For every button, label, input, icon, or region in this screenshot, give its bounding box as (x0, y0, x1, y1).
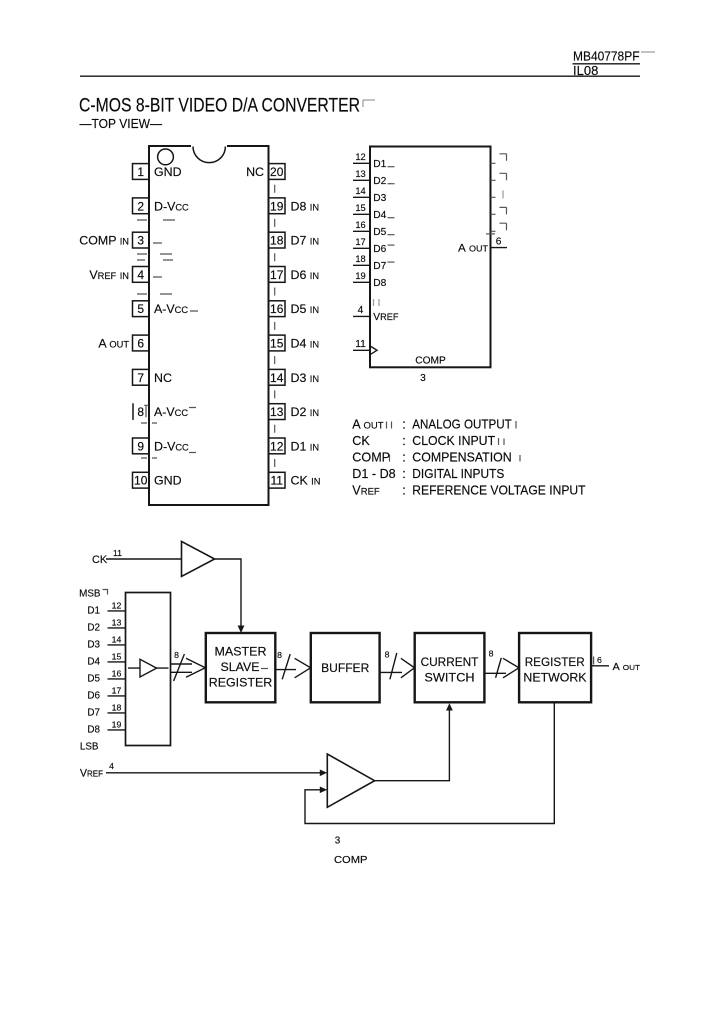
svg-text:COMP: COMP (334, 855, 368, 866)
svg-text:LSB: LSB (80, 741, 99, 752)
svg-text:D7: D7 (373, 261, 386, 272)
svg-text:14: 14 (270, 371, 284, 385)
pin 11 clock wire (353, 339, 370, 350)
svg-text:14: 14 (355, 186, 365, 196)
svg-text:D8 IN: D8 IN (291, 199, 320, 213)
svg-text:8: 8 (489, 649, 494, 659)
pin 18 net D7 IN (291, 234, 320, 248)
pin 16 label D5 (373, 227, 394, 238)
svg-text:6: 6 (496, 236, 502, 247)
svg-text:D3 IN: D3 IN (291, 371, 320, 385)
svg-text:C-MOS 8-BIT VIDEO D/A CONVERTE: C-MOS 8-BIT VIDEO D/A CONVERTER (79, 95, 360, 117)
buffer box (311, 633, 380, 702)
svg-text:15: 15 (112, 651, 122, 661)
wire D2 input pin 13 (87, 617, 125, 633)
svg-text:D2: D2 (87, 623, 100, 634)
svg-text:6: 6 (597, 655, 602, 665)
svg-text:1: 1 (137, 165, 144, 179)
pin 13 label D2 (373, 176, 394, 187)
svg-text:2: 2 (137, 199, 144, 213)
svg-text:A OUT: A OUT (98, 337, 129, 351)
pin 12 label D1 (373, 159, 394, 170)
svg-text::: : (402, 467, 406, 481)
pin 17 wire D6 (353, 237, 370, 248)
svg-text:D6 IN: D6 IN (291, 268, 320, 282)
svg-text:SLAVE: SLAVE (221, 660, 260, 674)
svg-text:D4: D4 (87, 657, 100, 668)
pin 17 net D6 IN (291, 268, 320, 282)
svg-text:SWITCH: SWITCH (424, 671, 474, 685)
svg-text:BUFFER: BUFFER (321, 661, 370, 675)
master slave register box (206, 633, 275, 702)
svg-text:REGISTER: REGISTER (209, 676, 273, 690)
pin 16 wire D5 (353, 220, 370, 231)
pin 6 net AOUT (98, 337, 129, 351)
bus current switch to register network, width 8 (484, 649, 519, 678)
legend row CLOCK INPUT (499, 438, 505, 445)
pin 1 box (133, 164, 150, 180)
svg-text:19: 19 (355, 271, 365, 281)
wire D6 input pin 17 (87, 685, 125, 701)
part number MB40778PF (573, 49, 640, 64)
pin 10 box (133, 472, 150, 488)
clock input triangle (370, 346, 377, 355)
subtitle TOP VIEW (80, 116, 163, 131)
pin 17 box (269, 267, 286, 283)
svg-text:7: 7 (137, 371, 144, 385)
wire clock buffer to master slave register (215, 559, 245, 633)
svg-text::: : (402, 451, 406, 465)
svg-text:DIGITAL INPUTS: DIGITAL INPUTS (412, 467, 504, 481)
input latch buffer symbol (128, 659, 169, 677)
current switch box (415, 633, 485, 702)
svg-text:D4: D4 (373, 210, 386, 221)
scan artifacts pin labels (189, 311, 198, 453)
rule under part number (573, 63, 641, 65)
svg-text:8: 8 (174, 650, 179, 660)
document code IL08 (573, 63, 598, 78)
svg-text:17: 17 (270, 268, 284, 282)
svg-text:D8: D8 (373, 278, 386, 289)
svg-text:D3: D3 (373, 193, 386, 204)
pin 18 label D7 (373, 261, 394, 272)
pin 13 net D2 IN (291, 405, 320, 419)
svg-text::: : (402, 434, 406, 448)
scan artifact stubs on right edge (491, 163, 496, 231)
svg-text:CURRENT: CURRENT (421, 655, 479, 669)
pin 15 wire D4 (353, 203, 370, 214)
wire D7 input pin 18 (87, 702, 125, 718)
svg-text:D3: D3 (87, 640, 100, 651)
register network box (519, 633, 591, 702)
pin 4 label VREF (373, 312, 399, 323)
svg-text:3: 3 (335, 835, 341, 846)
svg-text:D6: D6 (87, 691, 100, 702)
svg-text:NETWORK: NETWORK (523, 671, 586, 685)
svg-text:8: 8 (137, 405, 144, 419)
pin 17 label D6 (373, 244, 394, 255)
pin 14 wire D3 (353, 186, 370, 197)
pin 4 wire VREF (353, 305, 370, 316)
pin 13 box (269, 404, 286, 420)
pin 15 net D4 IN (291, 337, 320, 351)
wire CK to clock buffer (106, 558, 182, 560)
svg-text:3: 3 (137, 234, 144, 248)
svg-text:16: 16 (270, 302, 284, 316)
A OUT label (613, 662, 641, 673)
pin 8 box (133, 403, 148, 420)
svg-text:D-VCC: D-VCC (154, 439, 189, 453)
wire op-amp output to current switch (375, 703, 453, 781)
svg-text:3: 3 (420, 373, 426, 384)
svg-text:COMPENSATION: COMPENSATION (412, 451, 511, 465)
svg-text:NC: NC (246, 165, 264, 179)
svg-text:D5: D5 (87, 674, 100, 685)
svg-text:D-VCC: D-VCC (154, 199, 189, 213)
svg-text:4: 4 (137, 268, 144, 282)
svg-text:20: 20 (270, 165, 284, 179)
pin 14 net D3 IN (291, 371, 320, 385)
header rule (80, 75, 640, 77)
feedback wire register network to op-amp inverting input (305, 702, 554, 823)
legend row REFERENCE VOLTAGE INPUT (352, 484, 586, 498)
header artifact (641, 51, 655, 53)
svg-text:13: 13 (270, 405, 284, 419)
svg-text:16: 16 (355, 220, 365, 230)
functional block U1 outline (370, 147, 491, 368)
svg-text:8: 8 (385, 650, 390, 660)
svg-text:MSB: MSB (79, 588, 101, 599)
wire VREF to op-amp (106, 770, 327, 777)
pin 1 label GND (154, 165, 182, 179)
pin 5 box (133, 301, 150, 317)
svg-text:D2 IN: D2 IN (291, 405, 320, 419)
svg-text:D5 IN: D5 IN (291, 302, 320, 316)
svg-text:VREF: VREF (373, 312, 399, 323)
svg-text:—TOP VIEW—: —TOP VIEW— (80, 116, 163, 131)
svg-text:CLOCK INPUT: CLOCK INPUT (412, 434, 495, 448)
svg-text:11: 11 (355, 339, 366, 350)
svg-text:GND: GND (154, 474, 182, 488)
svg-text:8: 8 (277, 650, 282, 660)
pin 3 box (133, 232, 150, 248)
scan artifact inside box (374, 299, 380, 306)
pin 14 box (269, 369, 286, 385)
svg-text:12: 12 (355, 152, 365, 162)
pin 9 box (133, 438, 150, 454)
svg-text:D1 - D8: D1 - D8 (352, 467, 395, 481)
pin 20 box (269, 164, 286, 180)
svg-text:VREF IN: VREF IN (89, 268, 129, 282)
pin 10 label GND (154, 474, 182, 488)
svg-text:COMP IN: COMP IN (79, 234, 129, 248)
svg-text:D7 IN: D7 IN (291, 234, 320, 248)
svg-text:11: 11 (113, 548, 122, 558)
svg-text:A OUT: A OUT (458, 242, 488, 254)
svg-text:15: 15 (270, 337, 284, 351)
wire D1 input pin 12 (87, 600, 125, 616)
svg-text:VREF: VREF (80, 768, 103, 780)
pin 16 box (269, 301, 286, 317)
pin 7 label NC (154, 371, 172, 385)
svg-text:VREF: VREF (352, 484, 380, 498)
wire register network to A OUT pin 6 (591, 655, 609, 666)
svg-text:CK: CK (352, 434, 370, 448)
svg-text:13: 13 (355, 169, 365, 179)
block diagram: CK net label (92, 548, 122, 566)
pin 12 wire D1 (353, 152, 370, 163)
pin 5 label AVCC (154, 302, 188, 316)
svg-text:D4 IN: D4 IN (291, 337, 320, 351)
svg-text:CK: CK (92, 554, 108, 566)
pin 14 label D3 (373, 193, 386, 204)
pin 6 label A OUT (458, 242, 488, 254)
svg-text:14: 14 (112, 634, 122, 644)
svg-text:16: 16 (112, 668, 122, 678)
svg-text:A OUT: A OUT (613, 662, 641, 673)
svg-text:D2: D2 (373, 176, 386, 187)
pin 20 label NC (246, 165, 264, 179)
svg-text:D1 IN: D1 IN (291, 439, 320, 453)
pin 19 net D8 IN (291, 199, 320, 213)
svg-text:19: 19 (270, 199, 284, 213)
svg-text:REFERENCE VOLTAGE INPUT: REFERENCE VOLTAGE INPUT (412, 484, 586, 498)
scan artifacts left column dashes (137, 220, 175, 458)
legend row ANALOG OUTPUT (387, 421, 517, 429)
title C-MOS 8-BIT VIDEO D/A CONVERTER (79, 95, 360, 117)
svg-text:D1: D1 (373, 159, 386, 170)
svg-text:MASTER: MASTER (215, 645, 267, 659)
pin 19 label D8 (373, 278, 386, 289)
svg-text:A-VCC: A-VCC (154, 302, 188, 316)
svg-text:D6: D6 (373, 244, 386, 255)
input latch box (126, 593, 171, 746)
IC package U1 body (149, 145, 269, 506)
svg-text:A-VCC: A-VCC (154, 405, 188, 419)
pin 8 label AVCC (154, 405, 188, 419)
COMP label (415, 355, 446, 366)
LSB label (80, 741, 99, 752)
svg-text:GND: GND (154, 165, 182, 179)
svg-text:15: 15 (355, 203, 365, 213)
pin 19 box (269, 198, 286, 214)
svg-text:COMP: COMP (352, 451, 390, 465)
legend row DIGITAL INPUTS (352, 467, 504, 481)
pin 12 net D1 IN (291, 439, 320, 453)
pin 11 net CK IN (291, 474, 321, 488)
pin 6 box (133, 335, 150, 351)
pin 19 wire D8 (353, 271, 370, 282)
compensation op-amp (327, 754, 374, 807)
svg-text:5: 5 (137, 302, 144, 316)
pin 2 box (133, 198, 150, 214)
svg-text:REGISTER: REGISTER (525, 655, 585, 669)
pin 12 box (269, 438, 286, 454)
clock buffer amplifier (182, 541, 215, 576)
svg-text:A OUT: A OUT (352, 418, 383, 432)
svg-text:17: 17 (112, 685, 122, 695)
pin 6 wire A OUT (491, 236, 508, 247)
pin 18 wire D7 (353, 254, 370, 265)
svg-text:D1: D1 (87, 606, 100, 617)
pin 2 label DVCC (154, 199, 189, 213)
svg-text:CK IN: CK IN (291, 474, 321, 488)
wire D3 input pin 14 (87, 634, 125, 650)
svg-text:9: 9 (137, 439, 144, 453)
svg-text:12: 12 (112, 600, 122, 610)
pin 18 box (269, 232, 286, 248)
svg-text:MB40778PF: MB40778PF (573, 49, 640, 64)
scan artifacts right pin column (274, 185, 276, 467)
pin 15 label D4 (373, 210, 394, 221)
svg-text:18: 18 (112, 702, 122, 712)
pin 3 net COMPIN (79, 234, 129, 248)
pin 16 net D5 IN (291, 302, 320, 316)
legend row COMPENSATION (390, 455, 521, 462)
svg-text:11: 11 (270, 474, 283, 488)
pin 9 label DVCC (154, 439, 189, 453)
svg-text:10: 10 (134, 474, 148, 488)
MSB label (79, 588, 107, 599)
pin 3 label (420, 373, 426, 384)
wire D4 input pin 15 (87, 651, 125, 667)
pin 4 net VREFIN (89, 268, 129, 282)
svg-text:17: 17 (355, 237, 365, 247)
svg-text:19: 19 (112, 719, 122, 729)
svg-text:D8: D8 (87, 725, 100, 736)
svg-text::: : (402, 418, 406, 432)
pin 7 box (133, 369, 150, 385)
svg-text:18: 18 (270, 234, 284, 248)
svg-text:4: 4 (358, 305, 364, 316)
svg-text:ANALOG OUTPUT: ANALOG OUTPUT (412, 418, 512, 432)
svg-text:COMP: COMP (415, 355, 446, 366)
wire D5 input pin 16 (87, 668, 125, 684)
svg-text:NC: NC (154, 371, 172, 385)
svg-text:D7: D7 (87, 708, 100, 719)
svg-text:12: 12 (270, 439, 284, 453)
svg-text:13: 13 (112, 617, 122, 627)
svg-text:6: 6 (137, 337, 144, 351)
scan artifacts right of functional block (486, 154, 507, 234)
pin 13 wire D2 (353, 169, 370, 180)
bus input latch to master slave register, width 8 (171, 650, 206, 681)
pin 11 box (269, 472, 286, 488)
bus master slave register to buffer, width 8 (275, 650, 310, 679)
svg-text:4: 4 (109, 761, 114, 771)
pin 4 box (133, 267, 150, 283)
svg-text:D5: D5 (373, 227, 386, 238)
svg-text::: : (402, 484, 406, 498)
bus buffer to current switch, width 8 (380, 650, 415, 680)
wire D8 input pin 19 (87, 719, 125, 735)
pin 1 indicator dot (158, 149, 174, 165)
svg-text:18: 18 (355, 254, 365, 264)
VREF net label (80, 761, 114, 780)
COMP pin 3 label (334, 835, 368, 866)
pin 15 box (269, 335, 286, 351)
title artifact (363, 100, 375, 107)
